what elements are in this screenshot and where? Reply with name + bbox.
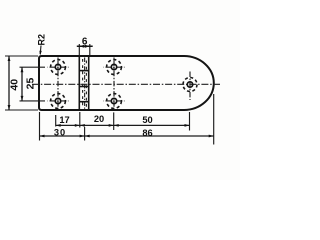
row2 ext plate right end: [213, 94, 215, 145]
svg-text:25: 25: [25, 78, 37, 90]
row1 ext hole col2: [113, 112, 115, 130]
hole H3 bottom-left: [51, 94, 66, 109]
svg-text:86: 86: [142, 128, 152, 138]
svg-text:R2: R2: [36, 34, 46, 46]
svg-text:40: 40: [8, 79, 20, 91]
knuckle left edge: [78, 56, 80, 110]
svg-text:6: 6: [82, 36, 88, 47]
plate outline: [39, 56, 214, 110]
knuckle cut line 2: [79, 86, 88, 88]
row1 ext knuckle edge: [79, 112, 81, 128]
row1 centerline hole2: [104, 66, 125, 68]
row2 centerline hole3: [48, 100, 69, 102]
dim 25 arrows: [21, 67, 24, 72]
right hole vertical centerline: [189, 70, 191, 100]
row1 arrows: [56, 124, 61, 127]
row1 ext right hole: [189, 112, 191, 131]
row2 arrows: [40, 135, 45, 138]
row2 dim line: [40, 135, 214, 137]
dim 40 arrows: [8, 56, 11, 61]
hole H1 top-left: [51, 60, 66, 75]
dim 6 extension lines: [78, 44, 80, 56]
row2 ext knuckle center: [84, 127, 86, 141]
dim 25 line: [21, 67, 23, 101]
row1 centerline left part: [20, 66, 46, 68]
hole H5 right: [183, 78, 197, 92]
svg-text:50: 50: [142, 115, 152, 125]
svg-text:30: 30: [54, 127, 66, 137]
dim 6 arrows: [79, 45, 84, 48]
column1 vertical centerline: [57, 58, 59, 112]
knuckle hidden pin line right: [85, 59, 87, 108]
row1 centerline hole1: [48, 66, 69, 68]
hole H4 bottom-mid: [107, 94, 122, 109]
R2 leader: [39, 46, 42, 55]
row2 ext plate left edge: [39, 112, 41, 141]
knuckle right edge: [88, 56, 90, 110]
knuckle cut line 1: [79, 70, 88, 72]
dim 40 line: [8, 56, 10, 110]
dim 6 line: [77, 45, 93, 47]
row2 centerline hole4: [104, 100, 125, 102]
row1 ext hole col1: [55, 115, 57, 127]
knuckle cut line 3: [79, 101, 88, 103]
row1 dim line: [56, 124, 190, 126]
dim 40 extension bottom: [5, 109, 38, 111]
dim 40 extension top: [5, 55, 38, 57]
main horizontal centerline: [32, 83, 220, 85]
hole H2 top-mid: [107, 60, 122, 75]
row2 centerline left part: [20, 100, 46, 102]
svg-text:17: 17: [59, 115, 69, 125]
knuckle hidden pin line left: [82, 59, 84, 108]
knuckle centerline: [84, 58, 86, 110]
svg-text:20: 20: [94, 114, 104, 124]
column2 vertical centerline: [113, 58, 115, 112]
